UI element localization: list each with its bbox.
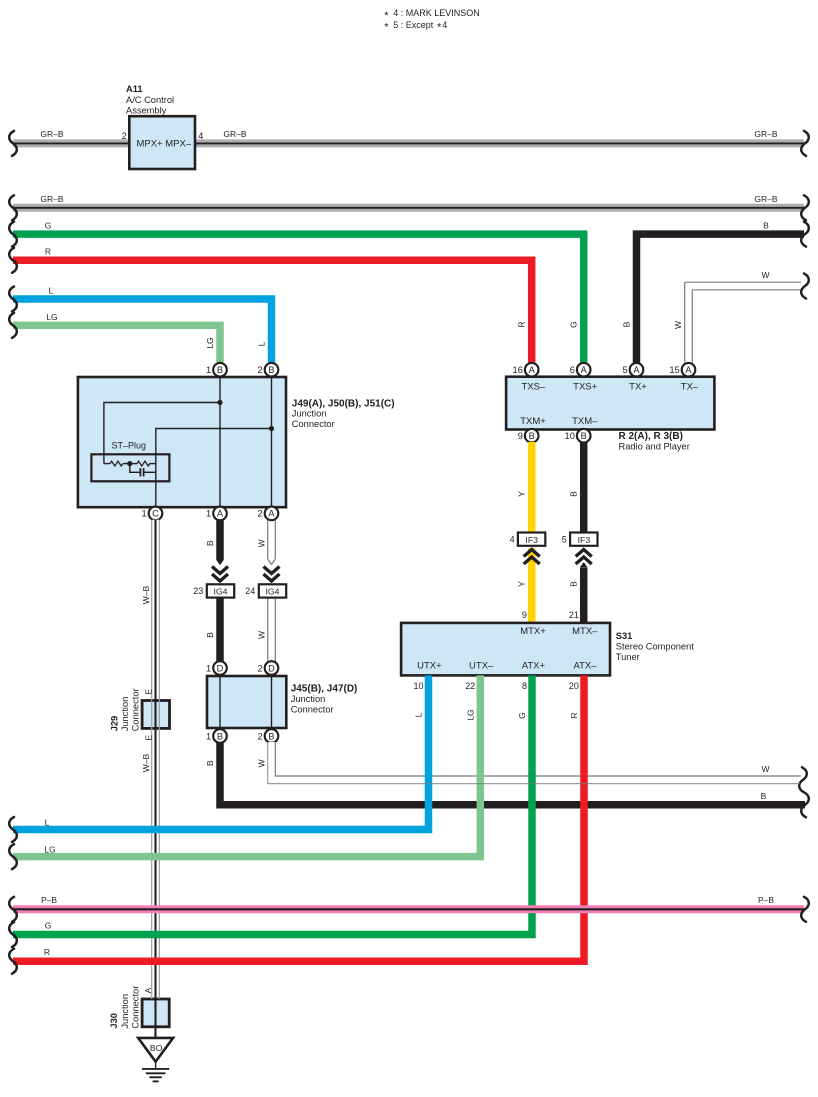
break left L xyxy=(9,287,17,312)
svg-text:4: 4 xyxy=(442,20,447,30)
connector IF3 5 xyxy=(570,533,597,546)
svg-text:20: 20 xyxy=(569,681,579,691)
wire G to radio pin6 xyxy=(13,234,584,362)
svg-text:5: 5 xyxy=(562,534,567,544)
svg-text:IF3: IF3 xyxy=(578,535,591,545)
svg-text:P–B: P–B xyxy=(758,895,774,905)
svg-text:LG: LG xyxy=(44,844,55,854)
svg-text:R: R xyxy=(44,947,50,957)
svg-text:22: 22 xyxy=(465,681,475,691)
terminal 2A J49 xyxy=(265,507,279,521)
connector IF3 4 xyxy=(518,533,545,546)
break left LG lower xyxy=(9,844,17,869)
svg-text:23: 23 xyxy=(193,586,203,596)
svg-text:IG4: IG4 xyxy=(265,587,279,597)
svg-text:10: 10 xyxy=(413,681,423,691)
svg-text:10: 10 xyxy=(565,431,575,441)
wire GR-B row2 xyxy=(13,204,804,212)
break right P-B xyxy=(801,897,809,922)
wire W to radio pin15 xyxy=(685,281,801,283)
node on 2B wire xyxy=(269,426,274,431)
J45 internal wire 1 xyxy=(219,676,221,728)
svg-text:16: 16 xyxy=(513,365,523,375)
ground BO triangle xyxy=(138,1038,173,1062)
radio and player box xyxy=(506,377,714,430)
svg-text:W: W xyxy=(761,764,769,774)
wire GR-B row1 xyxy=(13,139,804,147)
terminal 1B J45 xyxy=(213,729,227,743)
svg-text:W: W xyxy=(257,539,267,547)
svg-text:1: 1 xyxy=(206,731,211,741)
wire LG to J49 pin1B xyxy=(13,325,220,362)
capacitor to right wire xyxy=(145,471,156,473)
ground symbol xyxy=(155,1062,157,1069)
terminal 6A radio xyxy=(577,363,591,377)
svg-text:Connector: Connector xyxy=(292,419,335,429)
terminal 1A J49 xyxy=(213,507,227,521)
svg-text:P–B: P–B xyxy=(41,895,57,905)
svg-text:D: D xyxy=(268,663,275,673)
svg-text:MTX+: MTX+ xyxy=(520,626,546,637)
stereo component tuner S31 box xyxy=(401,623,610,676)
svg-text:B: B xyxy=(569,581,579,587)
svg-text:B: B xyxy=(761,791,767,801)
svg-text:G: G xyxy=(45,920,52,930)
junction connector J30 box xyxy=(142,999,169,1027)
wire Y IF3 to S31 xyxy=(528,548,536,623)
wire W J45-2B down and right - white band xyxy=(272,742,801,780)
J49 internal wire to ST-plug right xyxy=(156,429,272,508)
svg-text:W–B: W–B xyxy=(141,585,151,604)
svg-text:21: 21 xyxy=(569,610,579,620)
svg-text:R: R xyxy=(45,247,51,257)
junction connector J49 box xyxy=(78,377,286,507)
terminal 1D J45 xyxy=(213,661,227,675)
junction connector J45 box xyxy=(207,676,286,728)
svg-text:4: 4 xyxy=(198,131,203,141)
svg-text:A: A xyxy=(268,509,275,519)
svg-text:A11: A11 xyxy=(126,84,143,94)
svg-text:B: B xyxy=(581,431,587,441)
terminal 2B J45 xyxy=(265,729,279,743)
wire R S31 pin20 to left xyxy=(13,675,584,961)
svg-text:G: G xyxy=(45,220,52,230)
svg-text:Radio and Player: Radio and Player xyxy=(619,441,690,451)
svg-text:B: B xyxy=(205,632,215,638)
wire W-B white band xyxy=(152,520,160,999)
svg-text:A: A xyxy=(217,509,224,519)
break left GR-B row1 xyxy=(9,131,17,156)
terminal 9B radio xyxy=(525,429,539,443)
terminal 5A radio xyxy=(630,363,644,377)
svg-text:GR–B: GR–B xyxy=(754,129,777,139)
svg-text:C: C xyxy=(152,509,159,519)
svg-text:4: 4 xyxy=(510,534,515,544)
svg-text:Connector: Connector xyxy=(130,688,140,731)
svg-text:1: 1 xyxy=(206,365,211,375)
svg-text:B: B xyxy=(268,365,274,375)
svg-text:A: A xyxy=(633,365,640,375)
break left G lower xyxy=(9,922,17,947)
svg-text:15: 15 xyxy=(669,365,679,375)
svg-text:B: B xyxy=(622,321,632,327)
break right GR-B row1 xyxy=(801,131,809,156)
svg-text:TXS+: TXS+ xyxy=(573,381,597,392)
wire L to J49 pin2B xyxy=(13,299,272,363)
svg-text:6: 6 xyxy=(570,365,575,375)
node between resistors xyxy=(127,461,132,466)
break right W lower xyxy=(799,767,807,792)
svg-text:2: 2 xyxy=(258,509,263,519)
break left R xyxy=(9,248,17,273)
wire W IG4 to J45-2D xyxy=(267,598,269,662)
break left GR-B row2 xyxy=(9,195,17,220)
svg-text:2: 2 xyxy=(258,731,263,741)
svg-text:L: L xyxy=(45,817,50,827)
svg-text:W: W xyxy=(673,321,683,329)
terminal 2D J45 xyxy=(265,661,279,675)
svg-text:MTX–: MTX– xyxy=(572,626,598,637)
wire W upper edge xyxy=(275,742,801,776)
wire LG S31 pin22 to left xyxy=(13,675,480,856)
svg-text:E: E xyxy=(143,689,153,695)
svg-text:UTX–: UTX– xyxy=(469,660,494,671)
svg-text:IG4: IG4 xyxy=(213,587,227,597)
svg-text:5 : Except: 5 : Except xyxy=(393,20,434,30)
svg-text:W: W xyxy=(761,270,769,280)
wire R to radio pin16 xyxy=(13,260,532,362)
svg-text:ATX–: ATX– xyxy=(573,660,597,671)
svg-text:W: W xyxy=(257,759,267,767)
svg-text:Connector: Connector xyxy=(131,986,141,1029)
node on 1B wire xyxy=(217,400,222,405)
svg-text:G: G xyxy=(569,321,579,328)
svg-text:B: B xyxy=(529,431,535,441)
break right B xyxy=(801,222,809,247)
connector IG4 24 xyxy=(259,584,286,597)
capacitor plates xyxy=(139,468,141,476)
A/C control assembly A11 box xyxy=(129,116,195,169)
svg-text:1: 1 xyxy=(206,509,211,519)
wire B to radio pin5 xyxy=(637,234,805,362)
svg-text:R: R xyxy=(569,712,579,718)
wire Y radio to IF3 xyxy=(528,442,536,533)
break left L lower xyxy=(9,817,17,842)
svg-text:2: 2 xyxy=(258,365,263,375)
svg-text:Y: Y xyxy=(517,581,527,587)
svg-text:Junction: Junction xyxy=(120,994,130,1029)
resistor right xyxy=(137,461,150,466)
svg-text:LG: LG xyxy=(46,312,57,322)
svg-text:L: L xyxy=(49,286,54,296)
svg-text:B: B xyxy=(217,731,223,741)
svg-text:1: 1 xyxy=(142,509,147,519)
break right GR-B row2 xyxy=(801,195,809,220)
junction connector J29 box xyxy=(142,701,169,729)
capacitor branch wire xyxy=(130,464,140,473)
svg-text:4 : MARK LEVINSON: 4 : MARK LEVINSON xyxy=(393,8,480,18)
break right W xyxy=(801,274,809,299)
wire B J45-1B down and right xyxy=(220,742,805,805)
svg-text:A/C Control: A/C Control xyxy=(126,95,174,105)
svg-text:5: 5 xyxy=(623,365,628,375)
arrow into IF3 4 xyxy=(524,550,540,557)
svg-text:Tuner: Tuner xyxy=(616,652,640,662)
svg-text:24: 24 xyxy=(245,586,255,596)
break left G xyxy=(9,222,17,247)
svg-text:GR–B: GR–B xyxy=(40,129,63,139)
ST-plug wire xyxy=(104,463,110,465)
svg-text:J30: J30 xyxy=(109,1013,119,1029)
wire L S31 pin10 to left xyxy=(13,675,429,829)
break left LG xyxy=(9,313,17,338)
svg-text:TXM–: TXM– xyxy=(572,416,598,427)
J45 internal wire 2 xyxy=(271,676,273,728)
svg-text:B: B xyxy=(569,491,579,497)
wire W lower edge over verticals xyxy=(268,742,800,784)
svg-text:TXM+: TXM+ xyxy=(520,416,546,427)
break right B lower xyxy=(801,792,809,817)
svg-text:*: * xyxy=(384,10,389,22)
svg-text:B: B xyxy=(205,760,215,766)
svg-text:GR–B: GR–B xyxy=(754,194,777,204)
svg-text:IF3: IF3 xyxy=(525,535,538,545)
svg-text:J29: J29 xyxy=(110,716,120,732)
svg-text:B: B xyxy=(763,220,769,230)
break left R lower xyxy=(9,949,17,974)
svg-text:A: A xyxy=(685,365,692,375)
terminal 2B J49 xyxy=(265,363,279,377)
svg-text:B: B xyxy=(268,731,274,741)
wire P-B xyxy=(13,905,804,913)
svg-text:W: W xyxy=(257,631,267,639)
svg-text:Stereo Component: Stereo Component xyxy=(616,642,694,652)
svg-text:D: D xyxy=(217,663,224,673)
svg-text:1: 1 xyxy=(206,663,211,673)
wire W-B stripes xyxy=(151,520,153,999)
svg-text:9: 9 xyxy=(518,431,523,441)
svg-text:Assembly: Assembly xyxy=(126,105,167,115)
svg-text:W–B: W–B xyxy=(141,753,151,772)
svg-text:GR–B: GR–B xyxy=(223,129,246,139)
ST-Plug box xyxy=(91,454,169,481)
svg-text:8: 8 xyxy=(522,681,527,691)
svg-text:9: 9 xyxy=(522,610,527,620)
svg-text:L: L xyxy=(414,712,424,717)
svg-text:L: L xyxy=(257,341,267,346)
svg-text:A: A xyxy=(529,365,536,375)
wire B IG4 to J45-1D xyxy=(216,598,224,662)
svg-text:LG: LG xyxy=(205,337,215,348)
svg-text:E: E xyxy=(143,735,153,741)
svg-text:MPX+ MPX–: MPX+ MPX– xyxy=(136,139,191,150)
svg-text:B: B xyxy=(217,365,223,375)
svg-text:Junction: Junction xyxy=(120,697,130,732)
svg-text:B: B xyxy=(205,540,215,546)
wire B IF3 to S31 xyxy=(580,568,588,623)
svg-text:TX–: TX– xyxy=(681,381,699,392)
svg-text:ATX+: ATX+ xyxy=(522,660,546,671)
J49 internal wire to ST-plug left xyxy=(104,403,220,464)
svg-text:UTX+: UTX+ xyxy=(417,660,442,671)
J49 internal wire 2B-2A xyxy=(271,377,273,507)
J49 internal wire 1B-1A xyxy=(219,377,221,507)
svg-text:LG: LG xyxy=(465,709,475,720)
svg-text:TXS–: TXS– xyxy=(522,381,546,392)
svg-text:*: * xyxy=(384,22,389,34)
svg-text:Junction: Junction xyxy=(291,694,326,704)
svg-text:G: G xyxy=(517,712,527,719)
svg-text:A: A xyxy=(581,365,588,375)
svg-text:GR–B: GR–B xyxy=(40,194,63,204)
svg-text:Y: Y xyxy=(517,491,527,497)
svg-text:Connector: Connector xyxy=(291,704,334,714)
svg-text:A: A xyxy=(143,987,153,993)
svg-text:Junction: Junction xyxy=(292,409,327,419)
svg-text:S31: S31 xyxy=(616,631,633,641)
svg-text:R: R xyxy=(517,322,527,328)
wire G S31 pin8 to left xyxy=(13,675,532,934)
connector IG4 23 xyxy=(207,584,234,597)
break left P-B xyxy=(9,897,17,922)
terminal 1B J49 xyxy=(213,363,227,377)
resistor left xyxy=(110,461,123,466)
svg-text:J45(B), J47(D): J45(B), J47(D) xyxy=(291,684,358,695)
wire W J49-2A to IG4 xyxy=(267,520,269,559)
wire B J49-1A to IG4 xyxy=(216,520,224,560)
terminal 10B radio xyxy=(577,429,591,443)
svg-text:ST–Plug: ST–Plug xyxy=(112,441,147,451)
arrow into IG4 24 xyxy=(264,567,280,574)
svg-text:TX+: TX+ xyxy=(629,381,647,392)
terminal 1C J49 xyxy=(149,507,163,521)
terminal 15A radio xyxy=(682,363,696,377)
terminal 16A radio xyxy=(525,363,539,377)
arrow into IF3 5 xyxy=(576,550,592,557)
arrow into IG4 23 xyxy=(212,567,228,574)
wire B radio to IF3 xyxy=(580,442,588,533)
svg-text:2: 2 xyxy=(122,131,127,141)
svg-text:BO: BO xyxy=(150,1043,163,1053)
svg-text:2: 2 xyxy=(258,663,263,673)
